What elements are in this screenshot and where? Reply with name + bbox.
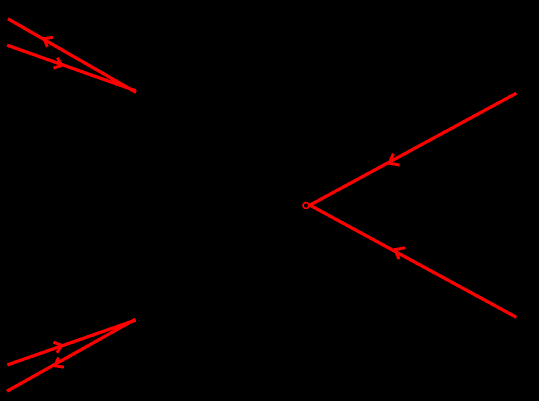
arrow A3 on ray L3 <box>53 342 62 353</box>
arrow A4 on ray L4 <box>55 358 64 368</box>
ray L5 (upper-right incoming ray toward source) <box>309 93 516 205</box>
arrow A6 on ray L6 <box>395 248 405 259</box>
ray L1 (upper-left outgoing ray) <box>8 19 136 93</box>
arrow A2 on ray L2 <box>54 58 63 68</box>
ray L3 (lower-left incoming ray) <box>7 320 135 365</box>
ray L2 (upper-left incoming ray) <box>7 45 136 91</box>
ray L6 (lower-right incoming ray toward source) <box>309 205 516 317</box>
arrow A1 on ray L1 <box>44 37 53 47</box>
point source circle S <box>303 203 309 209</box>
ray L4 (lower-left outgoing ray) <box>7 319 136 391</box>
arrow A5 on ray L5 <box>389 154 399 165</box>
